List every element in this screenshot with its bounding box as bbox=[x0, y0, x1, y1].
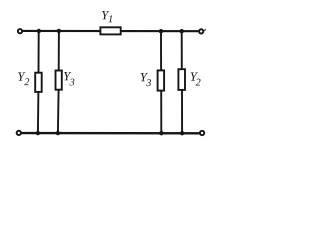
label Y2 (branch 1) bbox=[18, 72, 29, 85]
node: junction dot, top of branch 2 bbox=[57, 29, 61, 33]
admittance Y2 (left shunt box, branch 1) bbox=[35, 73, 42, 92]
admittance Y3 (right shunt box, branch 3) bbox=[158, 70, 165, 90]
terminal: top-left input port circle bbox=[18, 29, 22, 33]
admittance Y2 (right shunt box, branch 4) bbox=[178, 69, 185, 90]
stray tick mark near top-right terminal bbox=[204, 29, 207, 31]
node: junction dot, bottom of branch 4 bbox=[180, 131, 184, 135]
wire: left shunt branch 2 vertical segments bbox=[58, 31, 59, 133]
wire: bottom horizontal conductor (common rail) bbox=[21, 132, 199, 135]
terminal: bottom-left input port circle bbox=[17, 131, 21, 135]
wire: left shunt branch 1 vertical segments bbox=[37, 31, 40, 133]
terminal: bottom-right output port circle bbox=[200, 131, 204, 135]
label Y1 (series admittance) bbox=[102, 11, 112, 22]
node: junction dot, top of branch 1 bbox=[37, 29, 41, 33]
admittance Y1 (series box in top wire) bbox=[100, 27, 120, 34]
admittance Y3 (left shunt box, branch 2) bbox=[56, 71, 62, 90]
label Y3 (branch 3) bbox=[141, 73, 151, 86]
wire: right shunt branch 3 vertical segments bbox=[160, 31, 162, 133]
node: junction dot, bottom of branch 2 bbox=[56, 131, 60, 135]
label Y3 (branch 2) bbox=[64, 72, 74, 85]
wire: right shunt branch 4 vertical segments bbox=[181, 31, 183, 133]
node: junction dot, top of branch 3 bbox=[159, 29, 163, 33]
label Y2 (branch 4) bbox=[191, 73, 201, 86]
wire: top horizontal conductor from port 1 to port 2 bbox=[23, 30, 199, 32]
terminal: top-right output port circle bbox=[199, 29, 203, 33]
node: junction dot, bottom of branch 1 bbox=[36, 131, 40, 135]
node: junction dot, bottom of branch 3 bbox=[159, 131, 163, 135]
node: junction dot, top of branch 4 bbox=[180, 29, 184, 33]
